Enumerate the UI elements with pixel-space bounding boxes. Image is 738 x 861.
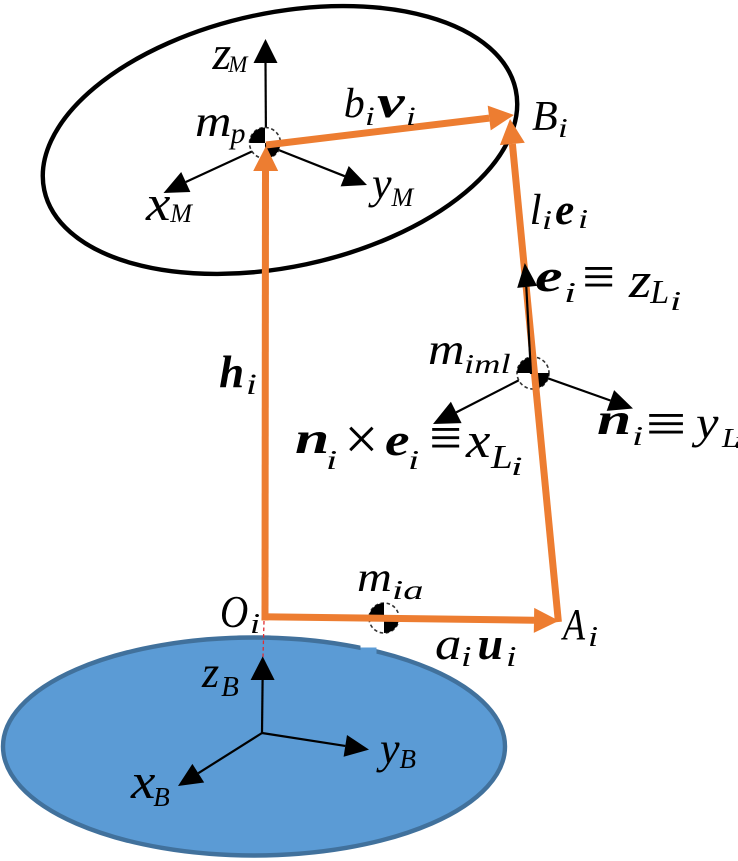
label x_B bbox=[131, 756, 170, 811]
axis z_M bbox=[254, 39, 278, 145]
axis x_Li bbox=[433, 373, 533, 424]
label m_p bbox=[195, 100, 246, 149]
orange vector b_i v_i bbox=[266, 106, 514, 145]
axis z_B bbox=[251, 656, 275, 733]
label m_iml bbox=[428, 328, 499, 378]
center of mass symbol m_p bbox=[250, 128, 281, 159]
orange leg vector l_i e_i bbox=[500, 119, 559, 622]
label y_B bbox=[380, 727, 416, 773]
label y_M bbox=[372, 162, 413, 211]
label A_i bbox=[563, 603, 597, 652]
axis x_M bbox=[164, 145, 267, 193]
label m_ia bbox=[357, 557, 413, 604]
label e_i equiv z_Li bbox=[0, 0, 1, 1]
axis y_Li bbox=[533, 373, 633, 411]
axis e_i along leg bbox=[517, 263, 537, 374]
center of mass symbol m_ia bbox=[369, 603, 399, 633]
label n_i x e_i equiv x_Li bbox=[0, 0, 1, 1]
base ellipse bbox=[3, 638, 505, 856]
orange vector h_i bbox=[253, 146, 278, 621]
label z_M bbox=[213, 30, 248, 78]
label l_i e_i bbox=[530, 189, 586, 234]
axis x_B bbox=[178, 733, 262, 786]
red dashed line O_i to base bbox=[263, 621, 264, 657]
label O_i bbox=[220, 589, 258, 640]
center of mass symbol m_iml bbox=[517, 357, 549, 389]
axis y_B bbox=[262, 733, 369, 757]
base border notch bbox=[361, 635, 377, 654]
moving platform ellipse bbox=[18, 0, 542, 314]
label h_i bbox=[219, 350, 254, 400]
label b_i v_i bbox=[344, 79, 414, 130]
axis y_M bbox=[266, 145, 367, 186]
label x_M bbox=[146, 178, 192, 228]
orange vector a_i u_i bbox=[262, 608, 560, 633]
label z_B bbox=[202, 651, 239, 702]
label a_i u_i bbox=[435, 621, 514, 672]
label n_i equiv y_Li bbox=[0, 0, 1, 1]
label B_i bbox=[532, 96, 565, 142]
